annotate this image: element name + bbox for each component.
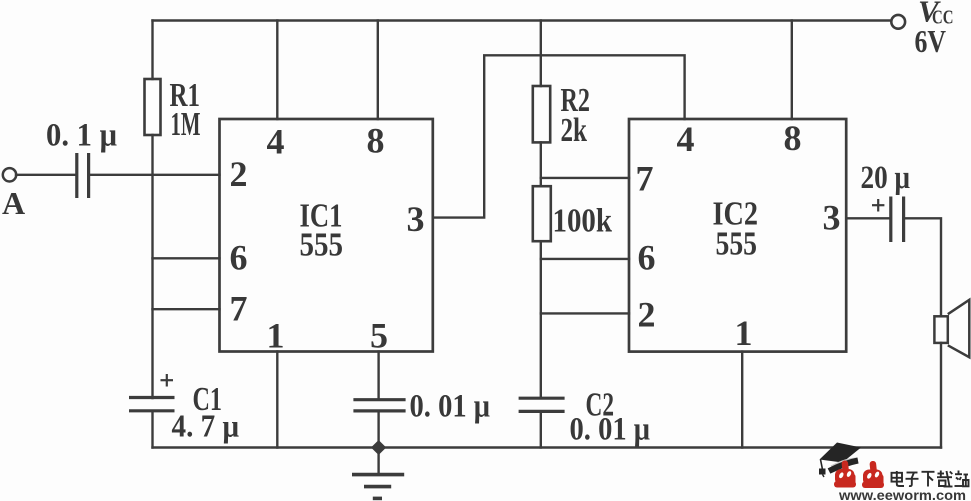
capacitor C2 plates [519, 398, 565, 411]
svg-text:www.eeworm.com: www.eeworm.com [838, 488, 966, 501]
pin 4 IC1 [267, 122, 285, 162]
wire 100k to C2 [540, 241, 542, 398]
wire pin6 IC2 [541, 258, 629, 260]
op-amp IC1 555 box [220, 119, 433, 352]
pin 2 IC1 [230, 154, 248, 194]
pin 6 IC2 [638, 238, 656, 278]
pin 1 IC1 [267, 316, 285, 356]
pin 5 IC1 [370, 316, 388, 356]
svg-text:555: 555 [300, 227, 344, 264]
svg-text:A: A [2, 185, 25, 221]
svg-text:2k: 2k [561, 112, 588, 149]
resistor 100k [533, 186, 551, 241]
junction dot ground node [371, 440, 386, 455]
wire 0.01u cap stem [377, 411, 379, 448]
logo bug char 2 [862, 461, 884, 488]
svg-text:6: 6 [230, 238, 248, 278]
svg-text:0. 1 μ: 0. 1 μ [46, 118, 117, 154]
wire IC1 pin3 to IC2 pin4 [433, 55, 685, 217]
label C1 [193, 381, 223, 418]
label 100k [553, 203, 613, 240]
wire VCC top rail [153, 19, 892, 21]
wire R2 to 100k [540, 142, 542, 186]
wire pin7 IC1 [153, 308, 220, 310]
svg-text:8: 8 [367, 121, 385, 161]
label 2k [561, 112, 588, 149]
pin 1 IC2 [735, 313, 753, 353]
label IC1 [300, 198, 343, 235]
capacitor C1 plates [129, 398, 175, 411]
wire R2 top feed [540, 21, 542, 87]
speaker [934, 300, 969, 357]
pin 6 IC1 [230, 238, 248, 278]
resistor R2 [533, 86, 550, 142]
svg-text:20 μ: 20 μ [861, 160, 911, 196]
label 20u [861, 160, 911, 196]
svg-text:0. 01 μ: 0. 01 μ [570, 412, 651, 448]
pin 2 IC2 [638, 295, 656, 335]
ground [352, 475, 404, 499]
wire pin1 IC1 drop [276, 352, 278, 448]
wire pin4 IC1 drop [276, 21, 278, 120]
pin 8 IC1 [367, 121, 385, 161]
pin 4 IC2 [677, 119, 695, 159]
wire ground stem [377, 448, 379, 475]
svg-text:3: 3 [823, 198, 841, 238]
pin 8 IC2 [784, 118, 802, 158]
wire speaker to bottom rail [940, 343, 942, 448]
wire pin1 IC2 drop [741, 352, 743, 448]
label 0.01u pin5 [410, 389, 491, 425]
svg-text:1: 1 [735, 313, 753, 353]
label 555 IC2 [716, 226, 758, 263]
wire C1 stem [151, 411, 153, 448]
svg-text:7: 7 [636, 159, 654, 199]
capacitor 0.1u input [77, 153, 89, 198]
svg-text:1: 1 [267, 316, 285, 356]
wire pin6 IC1 [153, 257, 220, 259]
svg-text:6V: 6V [915, 23, 947, 59]
resistor R1 [145, 79, 161, 135]
svg-text:3: 3 [407, 199, 425, 239]
pin 7 IC2 [636, 159, 654, 199]
label VCC [918, 0, 954, 29]
svg-text:4: 4 [267, 122, 285, 162]
svg-text:0. 01 μ: 0. 01 μ [410, 389, 491, 425]
svg-text:2: 2 [638, 295, 656, 335]
svg-text:8: 8 [784, 118, 802, 158]
node A input terminal [3, 168, 16, 181]
label 0.01u C2 [570, 412, 651, 448]
wire pin8 IC1 drop [377, 21, 379, 120]
label 4.7u [172, 408, 240, 444]
svg-text:6: 6 [638, 238, 656, 278]
wire 20u cap to speaker [904, 218, 941, 316]
label R2 [561, 82, 591, 119]
label R1 [170, 77, 201, 114]
label IC2 [713, 196, 759, 233]
svg-text:555: 555 [716, 226, 758, 263]
wire C2 stem [540, 411, 542, 447]
label C2 [586, 387, 615, 424]
pin 3 IC1 [407, 199, 425, 239]
wire bottom rail [153, 446, 942, 448]
label 555 IC1 [300, 227, 344, 264]
wire R1 top feed [151, 21, 153, 80]
svg-text:2: 2 [230, 154, 248, 194]
logo text dianzi xiazaizhan [892, 471, 969, 487]
svg-text:100k: 100k [553, 203, 613, 240]
wire pin2 IC2 [541, 312, 629, 314]
wire pin3 IC2 to 20u cap [846, 217, 889, 219]
wire input to 0.1u cap [16, 174, 76, 176]
label 0.1u [46, 118, 117, 154]
op-amp IC2 555 box [629, 119, 846, 352]
svg-text:4. 7 μ: 4. 7 μ [172, 408, 240, 444]
svg-text:4: 4 [677, 119, 695, 159]
logo bug char 1 [834, 460, 856, 487]
wire pin7 IC2 [541, 177, 629, 179]
label 6V [915, 23, 947, 59]
logo url www.eeworm.com [838, 488, 966, 501]
svg-text:1M: 1M [171, 106, 201, 143]
node A label [2, 185, 25, 221]
capacitor C1 plus sign [161, 374, 174, 387]
pin 3 IC2 [823, 198, 841, 238]
node VCC terminal [891, 15, 905, 29]
wire pin5 IC1 to 0.01u cap [377, 352, 379, 400]
wire pin2 IC1 [89, 174, 220, 176]
capacitor 20u plus sign [872, 199, 884, 212]
svg-text:5: 5 [370, 316, 388, 356]
label 1M [171, 106, 201, 143]
logo graduation cap [819, 443, 861, 478]
pin 7 IC1 [230, 289, 248, 329]
wire pin8 IC2 drop [791, 21, 793, 120]
capacitor 0.01u pin5 plates [353, 400, 405, 411]
capacitor 20u plates [891, 197, 904, 243]
wire R1 bottom to C1 [151, 135, 153, 398]
svg-text:7: 7 [230, 289, 248, 329]
